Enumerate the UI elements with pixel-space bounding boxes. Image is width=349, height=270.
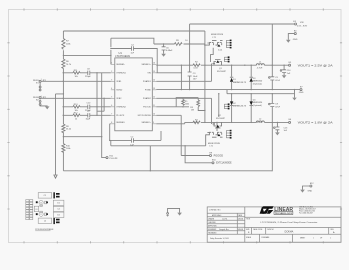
terminal E12 GND bottom right: [303, 185, 312, 190]
svg-text:VIN: VIN: [300, 22, 304, 24]
ground C14: [282, 75, 287, 78]
wire ch2 rail: [185, 121, 289, 123]
svg-text:9: 9: [153, 122, 154, 124]
terminal E4 GND top: [288, 33, 296, 40]
Linear Technology logo LT glyph: [260, 206, 274, 214]
diode D2 silk: [53, 212, 64, 217]
wire C14 col: [283, 65, 285, 75]
svg-text:SENSE2+: SENSE2+: [142, 122, 152, 124]
svg-text:PGND: PGND: [145, 90, 151, 92]
svg-text:47uF: 47uF: [275, 80, 280, 82]
svg-text:8: 8: [111, 122, 112, 124]
ground E4: [286, 40, 291, 43]
svg-text:R5: R5: [185, 101, 187, 103]
wire row RUN2: [41, 97, 111, 99]
wire ch1 rail: [156, 64, 288, 66]
svg-text:GND: GND: [308, 191, 313, 193]
svg-text:D2: D2: [57, 215, 59, 217]
svg-text:4.7uH: 4.7uH: [257, 68, 263, 70]
resistor R10: [62, 144, 65, 153]
resistor R8: [62, 124, 65, 133]
resistor bank silk: [26, 200, 29, 202]
svg-text:Phone: (408) 432-1900: Phone: (408) 432-1900: [299, 211, 315, 213]
wire Q3 drop: [211, 48, 214, 62]
svg-text:GND: GND: [299, 92, 304, 94]
wire C-col vertical: [97, 73, 106, 158]
capacitor C1 silk: [38, 193, 52, 199]
svg-text:0.68uF: 0.68uF: [166, 50, 173, 52]
svg-text:5,3,4: 5,3,4: [218, 49, 222, 51]
diode D4: [250, 101, 253, 105]
svg-text:C2: C2: [57, 209, 59, 211]
ground below JP2: [45, 106, 50, 109]
svg-text:10: 10: [153, 114, 155, 116]
wire VIN top distribution: [63, 30, 205, 32]
terminal E11 PLL/LPF: [106, 157, 108, 159]
ground E12: [300, 190, 305, 193]
wire VIN top to E3: [190, 23, 295, 25]
Q3 pin stubs: [226, 40, 229, 47]
svg-text:U1: U1: [35, 209, 37, 211]
inductor L1: [256, 64, 264, 66]
svg-text:4/30/03: 4/30/03: [238, 219, 243, 221]
inductor L2: [256, 121, 264, 123]
terminal E9 PGOOD: [210, 155, 212, 157]
wire E7 gnd drop: [295, 90, 301, 98]
svg-text:TITLE: TITLE: [246, 219, 250, 221]
svg-text:Joe M.: Joe M.: [222, 219, 228, 221]
svg-text:15: 15: [153, 71, 155, 73]
svg-text:SHEET: SHEET: [300, 238, 305, 240]
capacitor C13: [274, 127, 280, 130]
svg-text:3: 3: [111, 80, 112, 82]
wire PGATE2: [156, 98, 211, 124]
svg-text:2.5V - 9.8V: 2.5V - 9.8V: [297, 26, 308, 28]
svg-text:SENSE1+: SENSE1+: [142, 64, 152, 66]
terminal E2 RUN2: [39, 97, 41, 101]
wire C5 col: [271, 24, 273, 90]
svg-text:FDC602P: FDC602P: [216, 118, 226, 120]
wire EXTCLK row: [111, 140, 212, 170]
svg-text:MBRM120LT3: MBRM120LT3: [233, 82, 247, 84]
svg-text:DWG NO: DWG NO: [267, 229, 274, 231]
svg-text:47uF: 47uF: [275, 106, 280, 108]
svg-text:Gregale Bru.: Gregale Bru.: [219, 229, 230, 231]
svg-text:MGSF1P02E: MGSF1P02E: [211, 34, 224, 36]
wire D2 col: [231, 94, 233, 123]
wire Q4 drop: [216, 122, 218, 131]
svg-text:(Optional): (Optional): [253, 82, 262, 85]
wire C6 drop: [163, 44, 165, 54]
svg-text:15pF: 15pF: [86, 119, 91, 121]
wire C4 row: [111, 49, 157, 74]
svg-text:7: 7: [111, 114, 112, 116]
chassis ground tie: [167, 208, 180, 214]
svg-text:1: 1: [313, 238, 314, 240]
svg-text:1M: 1M: [191, 110, 194, 112]
svg-text:VOUT2 = 1.8V @ 2A: VOUT2 = 1.8V @ 2A: [298, 121, 333, 124]
svg-text:ENGINEER: ENGINEER: [208, 229, 217, 231]
wire Q3 feed: [205, 44, 208, 46]
svg-text:SENSE2-: SENSE2-: [116, 122, 125, 124]
resistor R13: [73, 106, 80, 109]
capacitor C8: [88, 71, 90, 75]
wire row PLL/LPF filter: [63, 114, 111, 116]
transistor Q4 dual pack: [206, 132, 223, 146]
capacitor C3: [188, 72, 192, 76]
resistor R3 pullup 1M: [197, 100, 200, 107]
svg-text:16V: 16V: [193, 79, 197, 81]
resistor R11: [73, 72, 80, 75]
svg-text:13: 13: [153, 88, 155, 90]
diode D2: [230, 101, 233, 105]
svg-text:1: 1: [330, 238, 331, 240]
terminal E6 VOUT2: [289, 121, 291, 123]
transistor Q3 dual pack: [207, 41, 222, 46]
svg-text:11: 11: [153, 105, 155, 107]
U1 right pin names: [138, 64, 152, 124]
wire SENSE2- link: [110, 124, 111, 141]
svg-text:PGATE1: PGATE1: [143, 80, 152, 83]
svg-text:CHECKED: CHECKED: [208, 222, 216, 224]
IC U1 LTC3701EGN body: [115, 58, 153, 131]
svg-text:ITH/RUN1: ITH/RUN1: [116, 73, 126, 75]
svg-text:SIZE: SIZE: [246, 229, 249, 231]
wire row ITH/RUN1: [63, 72, 111, 74]
wire R9 row: [154, 43, 205, 45]
junction dots top: [110, 43, 190, 49]
svg-text:EXTCLK/MODE: EXTCLK/MODE: [216, 163, 232, 165]
wire Q2 bus link: [218, 94, 220, 117]
wire row ITH/RUN2: [63, 106, 111, 108]
U1 pin numbers: [111, 63, 155, 125]
wire sense1- pin drop: [110, 55, 112, 64]
resistor R12: [73, 114, 80, 117]
resistor R9: [175, 43, 183, 46]
svg-text:SGND: SGND: [116, 90, 122, 92]
junction dots ch1: [181, 44, 295, 90]
junction dots ch2: [204, 93, 278, 123]
capacitor C6: [162, 47, 166, 50]
ground E7: [292, 98, 296, 101]
wire bottom return: [63, 170, 272, 172]
U1 left pin names: [116, 64, 126, 124]
wire SYNC row: [156, 115, 209, 155]
resistor R5: [182, 100, 185, 106]
wire VIN trunk: [189, 24, 191, 65]
svg-text:220pF: 220pF: [85, 76, 92, 78]
svg-text:RUN1: RUN1: [33, 80, 39, 82]
terminal E3 VIN: [295, 23, 297, 25]
svg-text:Fax: (408) 434-0507: Fax: (408) 434-0507: [299, 213, 313, 215]
wire PGATE1: [156, 64, 211, 82]
wire SENSE2+ row: [156, 122, 184, 123]
svg-text:VFB2: VFB2: [116, 98, 122, 100]
terminal E1 RUN1: [39, 80, 41, 86]
svg-text:PGATE2: PGATE2: [143, 97, 152, 100]
wire row SGND: [63, 136, 101, 138]
capacitor C9: [269, 103, 275, 106]
svg-text:10uF: 10uF: [193, 76, 198, 78]
wire C4 bypass loop: [111, 38, 154, 55]
svg-text:ITH/RUN2: ITH/RUN2: [116, 107, 126, 109]
wire row RUN1: [41, 80, 111, 82]
wire C2 loop: [110, 131, 161, 140]
svg-text:MBRS320: MBRS320: [253, 102, 263, 104]
svg-text:(Optional): (Optional): [253, 104, 262, 107]
wire D3 col: [250, 65, 252, 89]
capacitor C10: [88, 105, 90, 109]
svg-text:D1: D1: [57, 203, 59, 205]
wire D1 col: [231, 65, 233, 89]
svg-text:2: 2: [111, 71, 112, 73]
svg-text:4.7uH: 4.7uH: [257, 122, 263, 124]
svg-text:PGOOD: PGOOD: [143, 107, 151, 109]
transistor Q2: [213, 122, 222, 128]
transistor Q2 silk: [39, 212, 43, 216]
capacitor C14: [280, 70, 286, 73]
svg-text:VIN: VIN: [147, 73, 151, 75]
transistor Q1 silk: [39, 201, 43, 205]
wire trunk B: [62, 31, 64, 171]
svg-text:MBRM120LT3: MBRM120LT3: [233, 106, 247, 108]
svg-text:SENSE1-: SENSE1-: [116, 64, 125, 66]
diode D1: [230, 78, 233, 82]
wire R5 branch: [176, 98, 189, 107]
svg-text:PLL/LPF: PLL/LPF: [110, 158, 119, 160]
svg-text:MGSF1P02E: MGSF1P02E: [208, 143, 221, 145]
resistor R6: [62, 59, 65, 69]
svg-text:14: 14: [153, 80, 155, 82]
junction dots left: [63, 55, 112, 138]
wire ch2 VIN drop: [204, 31, 206, 122]
svg-text:VOUT1 = 2.5V @ 2A: VOUT1 = 2.5V @ 2A: [298, 64, 333, 67]
wire VIN pin row: [156, 72, 181, 74]
wire row SENSE1-: [63, 54, 111, 56]
svg-text:4/30/03: 4/30/03: [238, 229, 243, 231]
wire VFB2 jog: [97, 98, 104, 111]
wire C9 col + VOUT2 return: [271, 94, 273, 172]
capacitor C4: [132, 46, 134, 50]
svg-text:4: 4: [111, 88, 112, 90]
svg-text:LTC3701EGN, 2-Phase Dual Step-: LTC3701EGN, 2-Phase Dual Step-Down Conve…: [261, 221, 318, 224]
junction dots bottom: [109, 106, 206, 171]
diode D3: [250, 78, 253, 82]
ground C6: [161, 54, 166, 57]
capacitor C2: [131, 138, 133, 142]
diode D1 silk: [53, 200, 64, 205]
capacitor C7: [88, 113, 90, 117]
svg-text:100k: 100k: [185, 104, 189, 106]
Q2 pin stubs: [224, 104, 227, 108]
Q4 pin stubs: [226, 131, 229, 138]
svg-text:16: 16: [153, 63, 155, 65]
svg-text:5: 5: [111, 97, 112, 99]
svg-text:OF: OF: [320, 238, 322, 240]
resistor R7: [62, 39, 65, 50]
svg-text:TECHNOLOGY: TECHNOLOGY: [275, 213, 293, 215]
Q1 pin stubs: [224, 57, 227, 61]
svg-text:MBRS320: MBRS320: [253, 81, 263, 83]
svg-text:GND: GND: [293, 39, 298, 41]
terminal E10 EXTCLK/MODE: [212, 162, 214, 164]
svg-text:DC434A: DC434A: [285, 231, 294, 234]
svg-text:C1: C1: [44, 195, 46, 197]
jumper JP2: [39, 101, 47, 107]
wire C3 columns: [181, 65, 189, 89]
wire C13 col: [276, 122, 278, 132]
wire bottom return junction: [271, 170, 273, 172]
capacitor C5: [269, 77, 275, 80]
svg-text:12: 12: [153, 97, 155, 99]
resistor R4 sense: [193, 121, 200, 124]
svg-text:VFB1: VFB1: [116, 81, 122, 83]
resistor R2 sense: [193, 64, 200, 67]
capacitor C2 silk: [53, 206, 64, 211]
wire gnd bus ch1: [156, 89, 294, 91]
svg-text:FDC602P: FDC602P: [217, 71, 227, 73]
turret pads silk: [36, 192, 60, 224]
IC U1 silk: [34, 206, 38, 211]
svg-text:LTC3701EGN: LTC3701EGN: [115, 55, 130, 58]
wire D4 col: [250, 94, 252, 123]
off-page arrow trunk A: [54, 175, 57, 178]
wire gnd bus ch2: [227, 90, 295, 94]
ground C13: [275, 132, 280, 135]
svg-text:PGOOD: PGOOD: [214, 155, 224, 157]
jumper JP1: [39, 86, 41, 91]
svg-text:RUN2: RUN2: [33, 97, 39, 99]
terminal E7 GND: [300, 89, 302, 91]
svg-text:EXTCLK/MODE: EXTCLK/MODE: [138, 115, 152, 117]
svg-text:PLL/LPF: PLL/LPF: [116, 115, 125, 117]
terminal E5 VOUT1: [289, 64, 291, 66]
svg-text:L2: L2: [44, 220, 46, 222]
inductor L2 silk: [38, 218, 52, 223]
U1 pin stubs: [111, 64, 157, 124]
svg-text:6: 6: [111, 105, 112, 107]
wire trunk A: [56, 94, 64, 175]
wire PGOOD loop: [156, 98, 205, 111]
transistor Q1: [213, 60, 222, 66]
